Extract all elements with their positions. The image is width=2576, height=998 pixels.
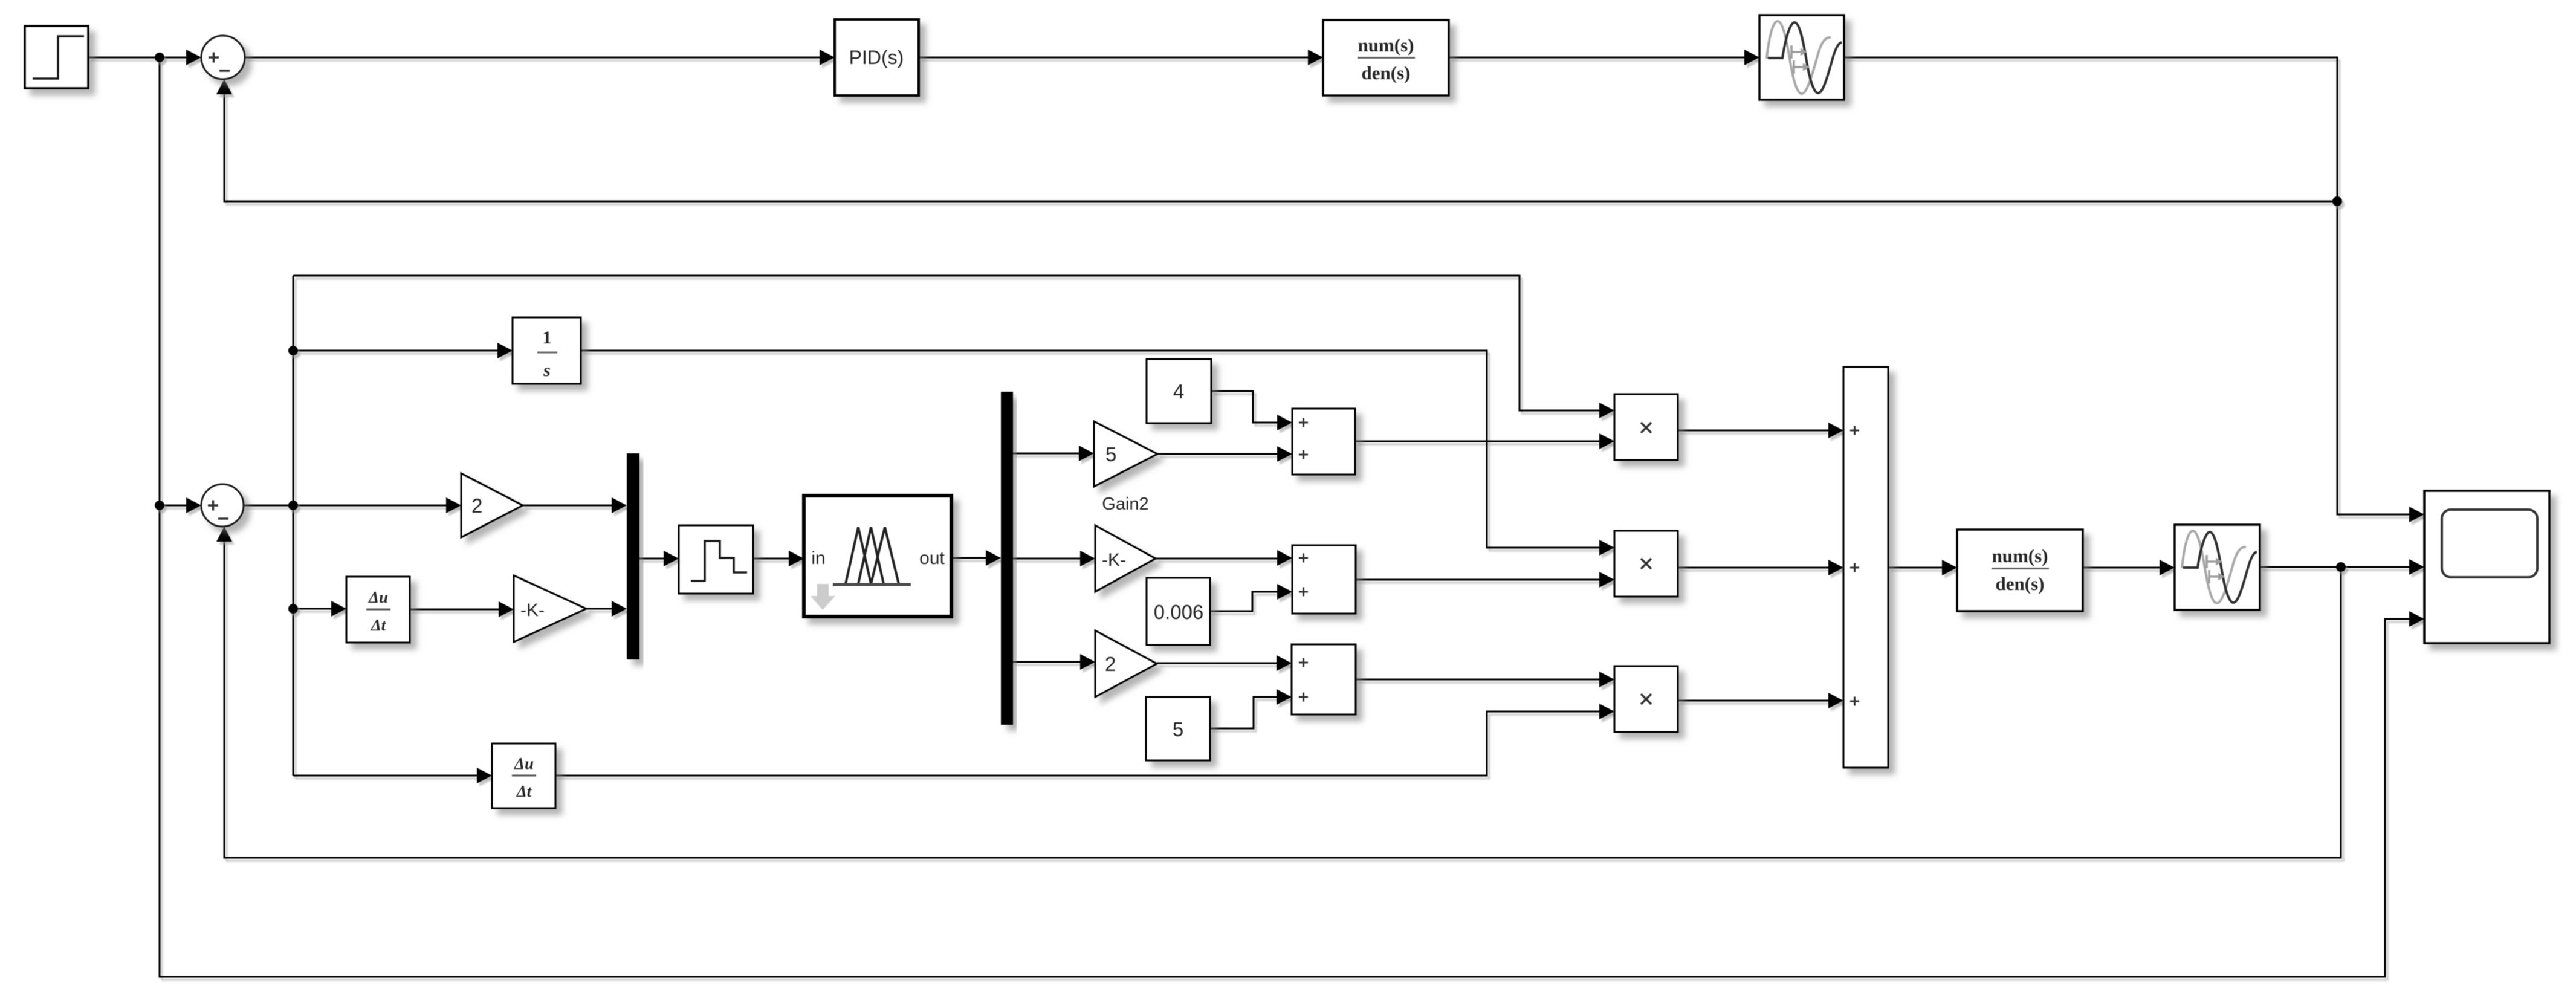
gain 2b triangle <box>1095 630 1157 697</box>
arrowhead into transport delay 2 <box>2160 560 2175 575</box>
arrowhead into PID <box>820 50 835 65</box>
arrowhead into sum block B input 2 <box>1277 584 1292 600</box>
arrowhead into scope input 2 <box>2409 559 2424 575</box>
wire quantizer output to fuzzy controller <box>753 558 802 560</box>
quantizer block <box>679 525 753 594</box>
mux bar <box>627 453 639 659</box>
arrowhead into sum block A input 1 <box>1277 446 1292 462</box>
wire product3 output to add bar <box>1678 700 1842 702</box>
arrowhead into sum block C input 2 <box>1277 689 1292 705</box>
arrowhead into transfer fcn 1 <box>1308 50 1323 65</box>
svg-text:2: 2 <box>471 494 482 517</box>
wire node J1 down to sum2 input <box>160 57 199 505</box>
transfer fcn 1 block <box>1323 20 1449 96</box>
wire integrator output to product2 input 1 <box>581 351 1613 548</box>
constant 5 block <box>1146 697 1210 760</box>
wire transfer fcn 2 output to transport delay 2 <box>2083 567 2173 569</box>
arrowhead into transport delay 1 <box>1744 50 1759 65</box>
svg-text:num(s): num(s) <box>1992 545 2048 566</box>
wire fuzzy controller output to demux <box>951 557 999 559</box>
derivative 2 block <box>492 744 555 808</box>
wire transport delay 1 output to scope input 1 <box>1844 57 2422 514</box>
arrowhead into quantizer <box>664 551 679 566</box>
product1 block <box>1614 394 1678 460</box>
svg-text:5: 5 <box>1173 718 1183 740</box>
add bar block <box>1843 367 1888 768</box>
wire gain 2b output to sum block C input 1 <box>1157 663 1290 664</box>
svg-text:PID(s): PID(s) <box>849 47 904 68</box>
arrowhead into sum block A input 2 <box>1277 415 1292 430</box>
wire derivative 2 output to product3 input 2 <box>555 711 1613 776</box>
gain -K- triangle 1 <box>514 575 586 642</box>
constant 4 block <box>1147 359 1211 423</box>
junction node at sum1 feedback <box>2332 196 2342 206</box>
wire product1 output to add bar <box>1678 430 1842 432</box>
arrowhead into product1 input 2 <box>1599 433 1614 449</box>
junction node J2 <box>155 501 164 510</box>
arrowhead into add bar input 3 <box>1828 693 1843 708</box>
arrowhead into mux input 1 <box>612 497 627 513</box>
svg-text:-K-: -K- <box>1102 550 1126 570</box>
arrowhead into scope input 3 <box>2409 611 2424 627</box>
transport delay 2 block <box>2175 525 2260 610</box>
wire sum1 output to PID <box>245 57 833 59</box>
product2 block <box>1614 531 1678 597</box>
wire add bar output to transfer fcn 2 <box>1888 567 1955 569</box>
arrowhead into product3 input 2 <box>1599 704 1614 719</box>
wire sum block C output to product3 input 1 <box>1356 679 1613 681</box>
wire sum block B output to product2 input 2 <box>1356 579 1613 581</box>
arrowhead into add bar input 2 <box>1828 560 1843 575</box>
arrowhead up into sum1 bottom <box>216 79 232 94</box>
arrowhead into mux input 2 <box>612 601 627 617</box>
arrowhead into derivative 1 <box>331 601 346 617</box>
wire step to sum1 <box>88 57 199 59</box>
scope block <box>2424 491 2549 643</box>
arrowhead into fuzzy controller <box>789 551 804 566</box>
arrowhead up into sum2 bottom <box>216 527 232 542</box>
svg-text:in: in <box>811 548 825 568</box>
arrowhead into add bar input 1 <box>1828 423 1843 438</box>
wire constant 0.006 to sum block B input 2 <box>1210 592 1290 611</box>
svg-text:Δu: Δu <box>368 588 388 606</box>
arrowhead into product3 input 1 <box>1599 672 1614 687</box>
arrowhead into gain 2 <box>446 497 461 513</box>
arrowhead into sum2 <box>186 497 201 513</box>
wire transport delay 2 output to scope input 2 <box>2260 566 2422 568</box>
arrowhead into gain -K- 2 <box>1080 551 1095 566</box>
sum block A <box>1292 409 1355 475</box>
fuzzy logic controller block <box>804 496 951 617</box>
svg-text:den(s): den(s) <box>1362 62 1411 83</box>
arrowhead into product2 input 2 <box>1599 572 1614 588</box>
PID controller block <box>835 19 919 96</box>
arrowhead into product2 input 1 <box>1599 540 1614 556</box>
arrowhead into scope input 1 <box>2409 507 2424 522</box>
svg-text:Δt: Δt <box>516 782 532 800</box>
junction node J3 sum2 output <box>288 501 298 510</box>
wire derivative 1 output to gain -K- <box>410 609 512 611</box>
arrowhead into product1 input 1 <box>1599 403 1614 418</box>
svg-text:out: out <box>919 548 945 568</box>
wire product2 output to add bar <box>1678 567 1842 569</box>
wire node J1 down along bottom to scope input 3 <box>160 505 2422 977</box>
svg-text:Δt: Δt <box>371 616 387 634</box>
wire constant 4 to sum block A input 2 <box>1211 391 1290 423</box>
wire gain -K- output to mux input 2 <box>586 608 625 610</box>
wire feedback from node J6 to sum2 bottom <box>224 539 2341 858</box>
wire column top to product1 input 1 <box>293 276 1613 410</box>
sum block B <box>1292 545 1356 614</box>
demux bar <box>1001 392 1013 725</box>
arrowhead into gain -K- <box>499 601 514 617</box>
arrowhead into integrator <box>497 343 513 358</box>
arrowhead into gain 5 <box>1079 446 1094 461</box>
step input block <box>25 26 88 88</box>
svg-text:den(s): den(s) <box>1996 573 2045 594</box>
wire sum block A output to product1 input 2 <box>1355 441 1613 442</box>
wire column bottom to derivative 2 <box>293 775 490 777</box>
svg-text:4: 4 <box>1173 380 1184 403</box>
arrowhead into sum1 <box>186 50 201 65</box>
wire node column x485 vertical <box>293 276 294 776</box>
gain -K- triangle 2 <box>1095 525 1156 592</box>
wire sum2 output to gain 2 <box>244 505 459 507</box>
svg-text:1: 1 <box>543 328 552 348</box>
svg-text:num(s): num(s) <box>1358 34 1414 56</box>
svg-text:0.006: 0.006 <box>1154 601 1204 623</box>
junction node at integrator branch <box>288 346 298 355</box>
wire gain -K- 2 output to sum block B input 1 <box>1156 558 1290 560</box>
svg-text:Gain2: Gain2 <box>1102 494 1148 514</box>
sum junction 1 <box>201 36 245 79</box>
wire demux output 1 to gain 5 <box>1013 453 1092 455</box>
product3 block <box>1614 666 1678 732</box>
wire constant 5 to sum block C input 2 <box>1210 697 1290 728</box>
derivative 1 block <box>346 577 410 643</box>
wire demux output 3 to gain 2b <box>1013 661 1093 663</box>
transfer fcn 2 block <box>1957 530 2083 611</box>
junction node J1 <box>155 53 164 62</box>
arrowhead into derivative 2 <box>477 768 492 783</box>
wire column to integrator 1/s <box>293 350 511 352</box>
gain 2 triangle <box>461 473 523 537</box>
svg-text:Δu: Δu <box>514 754 534 773</box>
svg-text:5: 5 <box>1105 443 1116 465</box>
arrowhead into gain 2b <box>1080 654 1095 670</box>
wire column to derivative 1 <box>293 608 345 610</box>
wire demux output 2 to gain -K- 2 <box>1013 558 1093 560</box>
wire gain 5 output to sum block A input 1 <box>1157 453 1290 455</box>
wire transfer fcn 1 output to transport delay 1 <box>1449 57 1758 59</box>
wire mux output to quantizer <box>639 558 677 560</box>
junction node at derivative 1 branch <box>288 604 298 614</box>
svg-text:2: 2 <box>1105 653 1116 675</box>
arrowhead into transfer fcn 2 <box>1942 560 1957 575</box>
svg-text:s: s <box>543 360 551 380</box>
constant 0.006 block <box>1147 578 1210 645</box>
junction node J6 output branch <box>2336 562 2346 572</box>
sum block C <box>1292 644 1356 714</box>
wire sum1 feedback from node at x3867 <box>224 92 2337 201</box>
arrowhead into demux <box>986 550 1001 566</box>
arrowhead into sum block B input 1 <box>1277 550 1292 566</box>
gain 5 triangle Gain2 <box>1094 421 1157 514</box>
svg-text:-K-: -K- <box>520 600 545 620</box>
wire PID output to transfer fcn 1 <box>919 57 1321 59</box>
wire gain 2 output to mux input 1 <box>523 505 625 507</box>
sum junction 2 <box>201 484 244 527</box>
transport delay 1 block <box>1759 15 1844 100</box>
integrator block 1/s <box>513 317 581 384</box>
arrowhead into sum block C input 1 <box>1277 655 1292 671</box>
